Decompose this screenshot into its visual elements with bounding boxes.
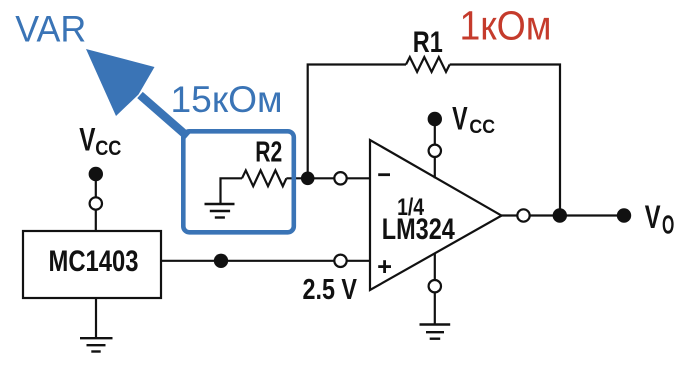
box MC1403 bbox=[23, 231, 161, 298]
svg-text:1кОм: 1кОм bbox=[460, 3, 552, 49]
terminal circle MC1403 Vcc pin bbox=[90, 197, 102, 209]
wire R2 left lead to ground bbox=[221, 178, 243, 203]
node Vo dot bbox=[617, 208, 631, 222]
op-amp plus sign bbox=[378, 260, 391, 273]
wire inverting node to op-amp minus input bbox=[307, 177, 370, 179]
svg-text:R2: R2 bbox=[255, 136, 282, 168]
terminal circle op-amp Vcc pin bbox=[429, 145, 441, 157]
ground under R2 bbox=[205, 204, 235, 218]
wire from R1 right, down to output node bbox=[450, 65, 560, 216]
node 2.5V junction bbox=[214, 254, 228, 268]
terminal circle op-amp ground pin bbox=[429, 280, 441, 292]
wire Vcc terminal to triangle bbox=[434, 157, 436, 178]
svg-text:O: O bbox=[662, 212, 674, 240]
terminal circle op-amp output bbox=[517, 209, 529, 221]
svg-text:V: V bbox=[452, 101, 468, 137]
svg-text:CC: CC bbox=[95, 136, 121, 160]
svg-text:CC: CC bbox=[469, 116, 495, 138]
wire op-amp output to Vo bbox=[501, 214, 624, 216]
node op-amp Vcc dot bbox=[428, 112, 442, 126]
wire terminal to MC1403 box bbox=[95, 210, 97, 231]
svg-text:LM324: LM324 bbox=[382, 213, 455, 246]
label Vcc (op-amp) bbox=[452, 101, 495, 139]
node inverting junction bbox=[301, 172, 315, 186]
wire MC1403 to ground bbox=[95, 298, 97, 338]
wire MC1403 output to op-amp plus input bbox=[161, 260, 370, 262]
wire Vcc dot to terminal bbox=[95, 181, 97, 197]
svg-text:VAR: VAR bbox=[15, 8, 86, 50]
label Vcc (left) bbox=[79, 122, 121, 160]
svg-text:15кОм: 15кОм bbox=[171, 79, 283, 120]
svg-text:V: V bbox=[79, 122, 96, 158]
label Vo bbox=[645, 199, 675, 240]
op-amp minus sign bbox=[378, 173, 390, 176]
resistor R2 bbox=[242, 170, 286, 186]
wire R2 right lead to inverting node bbox=[286, 177, 307, 179]
svg-text:2.5 V: 2.5 V bbox=[303, 273, 358, 305]
node output junction bbox=[553, 208, 567, 222]
ground under op-amp bbox=[420, 325, 451, 339]
wire ground terminal to ground bbox=[434, 292, 436, 324]
terminal circle plus input bbox=[334, 255, 346, 267]
blue arrow shaft bbox=[140, 95, 188, 137]
wire op-amp to ground terminal bbox=[434, 253, 436, 280]
node Vcc left dot bbox=[89, 167, 103, 181]
wire feedback left vertical and top horizontal to R1 bbox=[308, 65, 406, 179]
op-amp U1 triangle bbox=[370, 140, 502, 290]
svg-text:R1: R1 bbox=[413, 26, 443, 59]
ground under MC1403 bbox=[80, 338, 113, 351]
wire Vcc dot to terminal bbox=[434, 126, 436, 145]
svg-text:V: V bbox=[645, 199, 661, 235]
resistor R1 bbox=[406, 57, 450, 72]
blue arrow head bbox=[86, 49, 155, 116]
blue highlight box around R2 bbox=[183, 131, 293, 232]
terminal circle minus input bbox=[334, 172, 346, 184]
svg-text:MC1403: MC1403 bbox=[49, 245, 139, 278]
